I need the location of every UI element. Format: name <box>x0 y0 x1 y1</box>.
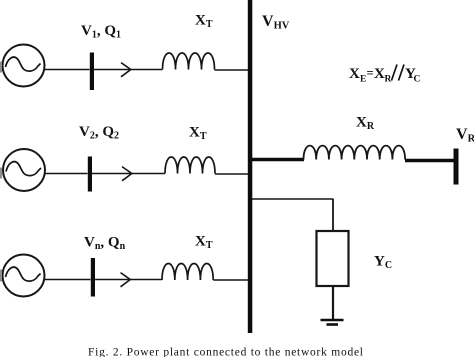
generator G2 <box>3 149 45 191</box>
wire G3 to node <box>45 279 91 281</box>
thick lead bus to XR <box>252 158 304 162</box>
svg-text:Fig. 2. Power plant connected: Fig. 2. Power plant connected to the net… <box>88 347 364 357</box>
wire YC box to ground <box>332 286 334 320</box>
svg-text:=: = <box>367 66 374 80</box>
inductor XR <box>304 146 406 160</box>
svg-text:X: X <box>374 66 385 82</box>
wire down to YC box <box>332 199 334 232</box>
inductor XT2 <box>165 157 215 174</box>
svg-text:R: R <box>385 75 392 85</box>
bus bar VHV <box>248 0 253 333</box>
thick lead XR to VR bar <box>405 159 454 163</box>
arrow A3 <box>121 273 131 287</box>
edge artifact row3 <box>0 270 2 282</box>
node bar B3 <box>91 258 95 297</box>
wire node to inductor <box>94 69 163 71</box>
node bar B2 <box>88 157 92 192</box>
wire G1 to node <box>45 69 90 71</box>
YC box <box>317 231 349 286</box>
svg-text:X: X <box>349 66 360 82</box>
svg-text:C: C <box>414 75 421 85</box>
svg-text:V2, Q2: V2, Q2 <box>79 124 119 142</box>
arrow A2 <box>122 167 132 181</box>
ground <box>321 320 344 325</box>
svg-text:E: E <box>360 75 366 85</box>
svg-text:Vn, Qn: Vn, Qn <box>84 235 126 253</box>
equation XE = XR // YC <box>349 65 421 85</box>
inductor XT1 <box>163 53 215 70</box>
wire XT1 to bus <box>215 69 249 71</box>
wire G2 to node <box>45 173 88 175</box>
wire bus to YC branch <box>252 198 334 200</box>
edge artifact row1 <box>0 62 2 73</box>
svg-text:V1, Q1: V1, Q1 <box>81 23 121 41</box>
generator G1 <box>3 45 45 87</box>
wire node to inductor row2 <box>92 173 165 175</box>
arrow A1 <box>121 63 131 77</box>
node bar B1 <box>90 53 94 91</box>
inductor XT3 <box>162 264 213 281</box>
wire XT3 to bus <box>213 279 248 281</box>
node bar VR <box>454 149 459 185</box>
edge artifact row2 <box>0 168 2 179</box>
wire node to inductor row3 <box>95 279 162 281</box>
wire XT2 to bus <box>215 173 248 175</box>
generator G3 <box>3 255 45 297</box>
